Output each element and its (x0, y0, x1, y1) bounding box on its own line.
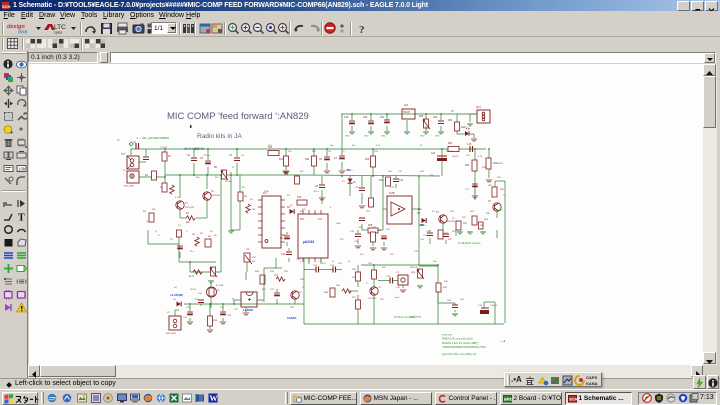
svg-text:C12: C12 (399, 180, 404, 182)
svg-text:F1 0.2A: F1 0.2A (216, 284, 224, 287)
svg-text:R22 10k: R22 10k (446, 151, 453, 153)
svg-text:C11: C11 (355, 187, 360, 189)
svg-text:J2: J2 (232, 167, 235, 169)
svg-text:R3: R3 (143, 211, 147, 213)
svg-text:R10: R10 (268, 147, 273, 149)
svg-text:T3: T3 (436, 212, 439, 214)
svg-text:100k: 100k (336, 223, 341, 225)
svg-text:C7: C7 (334, 158, 338, 160)
svg-text:J1: J1 (117, 138, 120, 142)
svg-text:X1: X1 (123, 170, 126, 172)
svg-text:2.2k: 2.2k (376, 145, 381, 147)
svg-text:R30: R30 (419, 116, 424, 118)
svg-text:2SC1815: 2SC1815 (211, 195, 221, 197)
svg-text:C7: C7 (342, 151, 345, 153)
svg-text:IC1: IC1 (287, 195, 291, 197)
svg-text:back: back (395, 297, 400, 299)
svg-text:C26: C26 (220, 307, 225, 309)
svg-text:10u: 10u (360, 254, 364, 256)
svg-text:BRD: BRD (504, 397, 512, 402)
svg-text:8: 8 (330, 207, 332, 209)
svg-text:50k: 50k (252, 261, 255, 263)
svg-text:R41: R41 (480, 225, 485, 227)
svg-text:22u: 22u (190, 251, 193, 253)
svg-text:R16: R16 (388, 171, 393, 173)
svg-text:GND: GND (435, 136, 440, 138)
svg-text:hASSA: hASSA (287, 316, 296, 320)
svg-text:R26: R26 (484, 219, 489, 221)
svg-text:1u: 1u (332, 261, 335, 263)
svg-text:C29: C29 (270, 289, 275, 291)
svg-text:T6: T6 (299, 292, 302, 294)
svg-text:link: link (18, 30, 28, 36)
svg-text:MIC COMP 'feed forward ':AN82: MIC COMP 'feed forward ':AN829 (167, 111, 309, 122)
svg-text:+5-15V(R): +5-15V(R) (170, 293, 183, 297)
svg-text:R39: R39 (411, 272, 416, 274)
svg-text:R12: R12 (312, 151, 317, 153)
svg-text:C1 104: C1 104 (160, 147, 168, 149)
svg-text:R9: R9 (210, 231, 214, 233)
svg-text:T5: T5 (366, 283, 369, 285)
svg-text:47k: 47k (215, 177, 219, 179)
svg-text:JA #: JA # (188, 274, 194, 278)
svg-text:R6: R6 (244, 196, 248, 198)
svg-text:C16: C16 (420, 239, 425, 241)
svg-text:P17: P17 (318, 219, 323, 221)
svg-text:JIN→: JIN→ (346, 168, 354, 172)
svg-text:T1: T1 (185, 203, 188, 205)
svg-text:R4: R4 (252, 209, 256, 211)
svg-text:R26: R26 (486, 213, 491, 215)
svg-text:R13: R13 (365, 159, 370, 161)
svg-text:R24 1k: R24 1k (497, 163, 503, 165)
svg-text:C2: C2 (187, 155, 191, 157)
svg-text:D1: D1 (353, 182, 357, 184)
svg-text:22k: 22k (300, 171, 304, 173)
svg-text:4: 4 (300, 261, 302, 263)
svg-text:R25: R25 (470, 211, 475, 213)
svg-text:C25: C25 (183, 317, 188, 319)
svg-text:R11: R11 (288, 151, 292, 153)
svg-text:X3: X3 (396, 272, 399, 274)
svg-text:D4: D4 (174, 287, 177, 289)
svg-text:10u: 10u (330, 145, 334, 147)
svg-text:C4: C4 (241, 155, 245, 157)
svg-text:R13: R13 (374, 151, 379, 153)
svg-text:C6: C6 (328, 151, 331, 153)
svg-text:C3 10u: C3 10u (203, 155, 211, 157)
svg-text:T2: T2 (211, 191, 214, 193)
svg-text:R16: R16 (379, 180, 384, 182)
svg-text:R34: R34 (255, 271, 260, 273)
svg-text:R17: R17 (366, 211, 371, 213)
svg-text:IC2B: IC2B (389, 192, 395, 195)
svg-text:R29: R29 (497, 177, 502, 179)
svg-text:IC4: IC4 (262, 301, 266, 303)
svg-text:R28: R28 (500, 189, 505, 191)
svg-text:C17: C17 (465, 189, 470, 191)
svg-text:C22: C22 (234, 309, 239, 311)
svg-text:R33: R33 (213, 320, 218, 322)
svg-text:GND: GND (381, 136, 386, 138)
svg-text:R: R (158, 235, 160, 237)
svg-text:C34 47u: C34 47u (490, 305, 498, 307)
svg-text:78L05: 78L05 (403, 111, 410, 114)
svg-text:MIC-PWR: MIC-PWR (166, 333, 176, 335)
svg-text:spice: spice (54, 31, 62, 35)
svg-text:IC1A: IC1A (264, 190, 269, 193)
svg-text:R9: R9 (208, 236, 212, 238)
svg-text:C5: C5 (178, 225, 181, 227)
svg-text:R9: R9 (214, 235, 217, 237)
svg-text:47u: 47u (352, 145, 356, 147)
svg-text:C28: C28 (330, 265, 335, 267)
svg-text:R15: R15 (302, 209, 307, 211)
svg-text:C27: C27 (322, 263, 327, 265)
svg-text:R17: R17 (340, 239, 345, 241)
svg-text:RHEA,S,SL xxx,rxx(+xxCt): RHEA,S,SL xxx,rxx(+xxCt) (442, 337, 473, 341)
svg-text:C4: C4 (229, 155, 233, 157)
svg-text:R20: R20 (382, 267, 387, 269)
svg-text:R34: R34 (270, 271, 275, 273)
svg-text:GND: GND (420, 136, 425, 138)
svg-text:LA4902: LA4902 (243, 308, 253, 312)
svg-text:C9: C9 (280, 238, 284, 240)
svg-text:C36: C36 (460, 299, 465, 301)
svg-text:X2: X2 (167, 312, 170, 314)
svg-text:Radio kits in JA: Radio kits in JA (197, 133, 242, 140)
svg-text:C3: C3 (200, 158, 204, 160)
svg-text:T6: T6 (302, 287, 305, 289)
svg-text:T3: T3 (452, 218, 455, 220)
svg-text:C6: C6 (319, 159, 323, 161)
svg-text:D5 1S..: D5 1S.. (190, 289, 197, 291)
svg-text:C:43,R42 xxxxxx: C:43,R42 xxxxxx (458, 241, 481, 245)
svg-text:R37: R37 (246, 249, 251, 251)
svg-text:R21: R21 (450, 211, 455, 213)
svg-text:C34: C34 (478, 305, 483, 307)
svg-text:R5 50k: R5 50k (225, 181, 233, 183)
svg-text:47k: 47k (390, 254, 394, 256)
svg-text:R31: R31 (448, 120, 453, 122)
svg-text:R21: R21 (352, 297, 357, 299)
svg-text:C26: C26 (227, 315, 232, 317)
svg-text:xxxx-xxx: xxxx-xxx (442, 334, 453, 337)
svg-text:C8: C8 (315, 186, 319, 188)
svg-text:R37: R37 (252, 257, 257, 259)
svg-text:5: 5 (318, 261, 320, 263)
svg-text:C15: C15 (466, 155, 471, 157)
svg-text:gxxxxxP+-93+-1+5+-3#x(+-D): gxxxxxP+-93+-1+5+-3#x(+-D) (442, 352, 476, 356)
svg-text:R15: R15 (297, 197, 302, 199)
svg-text:C8 1u: C8 1u (313, 191, 319, 193)
svg-text:C:57xx xxxx(fD): C:57xx xxxx(fD) (394, 315, 415, 319)
svg-text:R7: R7 (186, 213, 190, 215)
svg-text:1M: 1M (300, 211, 303, 213)
svg-text:C20: C20 (363, 117, 368, 119)
svg-text:R8: R8 (200, 233, 203, 235)
svg-text:22k: 22k (186, 222, 191, 224)
svg-text:R12: R12 (305, 159, 310, 161)
svg-text:RXD#G 1.6xV #1 xxLSC+MB(*): RXD#G 1.6xV #1 xxLSC+MB(*) (442, 341, 479, 345)
svg-text:C33: C33 (386, 229, 391, 231)
svg-text:C33: C33 (414, 251, 419, 253)
svg-text:R14: R14 (420, 171, 425, 173)
svg-text:LED: LED (461, 126, 466, 129)
svg-text:R36: R36 (324, 292, 329, 294)
svg-text:R35: R35 (290, 307, 295, 309)
svg-text:R: R (155, 231, 157, 233)
svg-text:C24: C24 (198, 293, 203, 295)
svg-text:4.7k: 4.7k (478, 156, 483, 158)
svg-text:1k: 1k (420, 145, 423, 147)
svg-text:C31: C31 (350, 231, 355, 233)
svg-text:W: W (210, 394, 218, 403)
svg-text:Rxx: Rxx (433, 261, 438, 263)
svg-text:R3a: R3a (152, 209, 157, 211)
svg-text:IC3: IC3 (404, 104, 409, 107)
svg-text:C30: C30 (396, 287, 401, 289)
svg-text:R18: R18 (352, 269, 357, 271)
svg-text:1u: 1u (348, 261, 351, 263)
svg-text:MIC-LINE: MIC-LINE (124, 186, 134, 188)
svg-text:R39 10k: R39 10k (410, 267, 417, 269)
svg-text:GND: GND (345, 136, 350, 138)
svg-text:C28: C28 (338, 263, 343, 265)
svg-text:PC1: PC1 (300, 219, 305, 221)
svg-text:R22: R22 (448, 143, 453, 145)
svg-text:?: ? (359, 24, 365, 35)
svg-text:SV1: SV1 (476, 106, 481, 109)
svg-text:R5: R5 (214, 167, 218, 169)
svg-text:10u/16: 10u/16 (452, 156, 459, 158)
svg-text:*4#P#4.8V#S#R67#64HRP#(P)+*5C#: *4#P#4.8V#S#R67#64HRP#(P)+*5C# (442, 345, 486, 349)
svg-text:2SC1815: 2SC1815 (447, 221, 456, 223)
svg-text:T4: T4 (488, 201, 491, 203)
svg-text:D2: D2 (287, 207, 291, 209)
svg-text:C12: C12 (398, 171, 403, 173)
svg-text:R36: R36 (336, 285, 341, 287)
svg-text:D1: D1 (342, 181, 346, 183)
svg-text:F1: F1 (217, 290, 220, 292)
svg-text:•—■: •—■ (500, 340, 506, 343)
svg-text:GND: GND (364, 136, 369, 138)
svg-text:T: T (18, 213, 25, 223)
svg-text:D3: D3 (432, 211, 435, 213)
svg-text:PR2: PR2 (274, 275, 279, 277)
svg-text:R4: R4 (250, 199, 253, 201)
svg-text:D3: D3 (417, 213, 421, 215)
svg-text:C5: C5 (170, 239, 174, 241)
svg-text:μA2181: μA2181 (303, 240, 315, 244)
svg-text:C15: C15 (467, 144, 472, 146)
svg-text:C21: C21 (380, 117, 385, 119)
svg-text:C36: C36 (447, 300, 452, 302)
svg-text:C12: C12 (390, 187, 395, 189)
svg-text:R6: R6 (242, 187, 245, 189)
svg-text:J:→+RL +0FdRil10dBRd: J:→+RL +0FdRil10dBRd (136, 136, 169, 140)
svg-text:R25: R25 (462, 217, 467, 219)
svg-text:C23: C23 (433, 117, 438, 119)
svg-text:C: C (186, 231, 188, 233)
svg-text:T4: T4 (503, 195, 506, 197)
svg-text:C19: C19 (344, 117, 349, 119)
svg-text:4.7k: 4.7k (175, 197, 180, 199)
svg-text:gnd: gnd (121, 152, 126, 156)
svg-text:R1: R1 (168, 156, 172, 158)
svg-text:2SK: 2SK (418, 209, 422, 211)
svg-text:R11: R11 (279, 159, 284, 161)
svg-text:10k: 10k (196, 177, 200, 179)
svg-text:R8: R8 (192, 234, 196, 236)
svg-text:PR2: PR2 (284, 271, 289, 273)
svg-text:R23: R23 (465, 165, 470, 167)
svg-text:SCH: SCH (569, 397, 577, 402)
svg-text:10k: 10k (18, 167, 26, 172)
svg-text:R22: R22 (380, 299, 385, 301)
svg-text:R27: R27 (448, 239, 453, 241)
svg-text:R40: R40 (443, 287, 448, 289)
svg-text:C14: C14 (431, 153, 436, 155)
svg-text:1k: 1k (146, 221, 148, 223)
svg-text:2SC1815: 2SC1815 (185, 207, 195, 209)
svg-text:2SC1815: 2SC1815 (368, 298, 377, 300)
svg-text:D2: D2 (290, 205, 293, 207)
svg-text:T5: T5 (378, 287, 381, 289)
svg-text:R40: R40 (444, 281, 449, 283)
svg-text:R25: R25 (463, 223, 468, 225)
svg-text:JP: JP (451, 110, 454, 113)
svg-text:D5: D5 (173, 299, 177, 301)
svg-text:C27: C27 (313, 265, 318, 267)
svg-text:C10: C10 (281, 254, 286, 256)
